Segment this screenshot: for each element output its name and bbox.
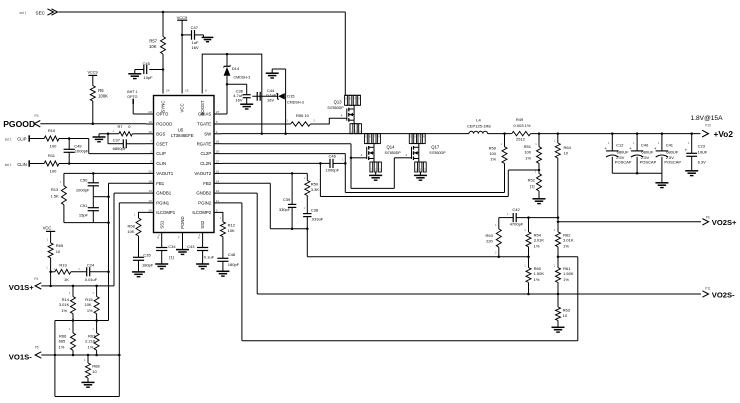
svg-text:C50: C50 bbox=[80, 177, 88, 182]
svg-text:C37: C37 bbox=[113, 138, 121, 143]
svg-text:C35: C35 bbox=[143, 253, 151, 258]
svg-text:OPTO: OPTO bbox=[127, 95, 137, 99]
wire TGATE bbox=[222, 123, 291, 125]
resistor R50 3.3K bbox=[305, 181, 310, 196]
svg-text:C42: C42 bbox=[512, 207, 520, 212]
svg-text:VCC: VCC bbox=[43, 226, 52, 231]
svg-text:FB2: FB2 bbox=[203, 181, 211, 186]
pin 27 GBIAS bbox=[214, 113, 222, 115]
ground for Q17 bbox=[419, 172, 421, 175]
resistor R65 10 bbox=[48, 243, 53, 258]
svg-text:100: 100 bbox=[489, 151, 496, 156]
wire FB2 jog bbox=[222, 182, 271, 184]
svg-text:VCC9: VCC9 bbox=[177, 15, 188, 20]
svg-text:1%: 1% bbox=[87, 308, 93, 313]
pin 14 FB2 bbox=[214, 182, 222, 184]
svg-text:0.1uF: 0.1uF bbox=[204, 254, 215, 259]
wire OPTO net bbox=[132, 104, 134, 114]
wire output cap ground rail bbox=[612, 172, 662, 174]
capacitor C38 .033uF bbox=[303, 213, 311, 215]
svg-text:C23: C23 bbox=[698, 144, 706, 149]
pin 5 SS1 (bottom) bbox=[161, 233, 163, 248]
svg-text:C46: C46 bbox=[329, 153, 337, 158]
svg-text:Q14: Q14 bbox=[387, 144, 396, 149]
svg-text:1000pF: 1000pF bbox=[75, 149, 89, 154]
svg-text:2512: 2512 bbox=[516, 137, 526, 142]
svg-text:LT3846EFE: LT3846EFE bbox=[171, 133, 194, 138]
svg-text:18: 18 bbox=[148, 179, 152, 183]
svg-text:+: + bbox=[654, 146, 657, 151]
pin 2 CLIN bbox=[146, 163, 154, 165]
svg-text:3.01K: 3.01K bbox=[534, 238, 545, 243]
svg-text:10: 10 bbox=[92, 369, 97, 374]
svg-text:16: 16 bbox=[148, 130, 152, 134]
svg-text:+: + bbox=[685, 147, 688, 152]
pin 16 BGS bbox=[146, 133, 154, 135]
svg-text:L4: L4 bbox=[476, 118, 481, 123]
ground for R52 bbox=[533, 198, 546, 200]
ground for C47 bbox=[203, 35, 205, 38]
wire bottom loop bbox=[55, 396, 119, 398]
svg-text:R62: R62 bbox=[563, 232, 571, 237]
svg-text:BOOST: BOOST bbox=[200, 100, 205, 115]
svg-text:BHT 1: BHT 1 bbox=[127, 90, 137, 94]
svg-text:21: 21 bbox=[216, 160, 220, 164]
ground for C35 bbox=[132, 271, 145, 273]
ground for R68 bbox=[82, 381, 95, 383]
svg-text:CLIN: CLIN bbox=[156, 161, 166, 166]
svg-text:1%: 1% bbox=[563, 243, 569, 248]
svg-text:P6: P6 bbox=[706, 216, 710, 220]
svg-text:C47: C47 bbox=[191, 25, 199, 30]
capacitor C50 1000pF bbox=[92, 173, 94, 182]
svg-text:R52: R52 bbox=[528, 177, 536, 182]
capacitor C12 680UF 2.5V POSCAP bbox=[611, 134, 613, 151]
svg-text:VCC9: VCC9 bbox=[88, 70, 98, 74]
svg-text:R49: R49 bbox=[516, 117, 524, 122]
svg-text:R19: R19 bbox=[59, 263, 67, 268]
svg-text:CMDSH-3: CMDSH-3 bbox=[234, 76, 251, 80]
svg-text:22: 22 bbox=[148, 169, 152, 173]
svg-text:1%: 1% bbox=[490, 157, 496, 162]
pin 12 GNDB2 bbox=[214, 192, 222, 194]
pin 20 CL2P bbox=[214, 153, 222, 155]
svg-text:9: 9 bbox=[205, 89, 207, 93]
resistor R52 [1] bbox=[538, 170, 540, 174]
resistor R63 10 bbox=[557, 294, 559, 307]
svg-text:VAOUT1: VAOUT1 bbox=[156, 171, 173, 176]
resistor R14 3.01K 1% bbox=[72, 286, 74, 297]
svg-text:PGOOD: PGOOD bbox=[3, 119, 35, 129]
svg-text:10pF: 10pF bbox=[144, 75, 154, 80]
svg-text:Q17: Q17 bbox=[431, 144, 440, 149]
svg-text:1.5K: 1.5K bbox=[50, 193, 59, 198]
svg-text:D14: D14 bbox=[232, 66, 240, 71]
capacitor C37 6800pF bbox=[107, 134, 109, 144]
svg-text:R67: R67 bbox=[88, 333, 96, 338]
svg-text:10: 10 bbox=[56, 249, 61, 254]
resistor R11 100 bbox=[30, 163, 44, 165]
svg-text:3: 3 bbox=[216, 208, 218, 212]
capacitor C36 4.7uF 16V bbox=[227, 83, 247, 85]
svg-text:24: 24 bbox=[166, 89, 170, 93]
svg-text:C40: C40 bbox=[641, 143, 649, 148]
resistor R59 100 1% bbox=[504, 134, 506, 147]
svg-text:1K: 1K bbox=[64, 277, 69, 282]
svg-text:RGATE: RGATE bbox=[197, 141, 212, 146]
resistor R7 0 bbox=[99, 133, 119, 135]
resistor R15 10K 1% bbox=[96, 286, 98, 297]
capacitor C48 180pF bbox=[217, 257, 228, 259]
svg-text:R66: R66 bbox=[59, 333, 67, 338]
svg-text:SS1: SS1 bbox=[159, 220, 164, 229]
svg-text:5: 5 bbox=[216, 120, 218, 124]
svg-text:VCC: VCC bbox=[180, 103, 185, 112]
svg-text:set 1: set 1 bbox=[5, 137, 12, 141]
svg-text:1: 1 bbox=[150, 150, 152, 154]
svg-text:Si7850DP: Si7850DP bbox=[385, 151, 402, 155]
svg-text:R68: R68 bbox=[92, 363, 100, 368]
svg-text:680UF: 680UF bbox=[666, 149, 679, 154]
svg-text:1000pF: 1000pF bbox=[76, 188, 90, 193]
svg-text:P3: P3 bbox=[35, 114, 39, 118]
wire D15 cathode to SW bbox=[285, 69, 287, 134]
svg-text:VO2S+: VO2S+ bbox=[712, 218, 737, 227]
svg-text:R14: R14 bbox=[62, 297, 70, 302]
svg-text:1.8V@15A: 1.8V@15A bbox=[691, 115, 724, 122]
svg-text:7: 7 bbox=[150, 140, 152, 144]
svg-text:D15: D15 bbox=[287, 94, 295, 99]
ground for C23 bbox=[685, 170, 698, 172]
pin 5 TGATE bbox=[214, 123, 222, 125]
ground for R63 bbox=[552, 326, 565, 328]
ground for output caps bbox=[661, 173, 663, 183]
wire SEC to Q13 drain bbox=[59, 11, 346, 13]
pin 22 VAOUT1 bbox=[146, 172, 154, 174]
resistor R62 3.01K 1% bbox=[557, 218, 559, 232]
pin 7 PGND (bottom) bbox=[182, 233, 184, 250]
capacitor C44 0.1uF 16V with diode D15 CMDSH-3 bbox=[252, 95, 277, 97]
svg-text:C34: C34 bbox=[168, 244, 176, 249]
svg-text:PGND: PGND bbox=[180, 216, 185, 228]
svg-text:R11: R11 bbox=[48, 153, 56, 158]
wire VCC line to IC bbox=[181, 20, 183, 93]
pin 21 CL2N bbox=[214, 163, 222, 165]
svg-text:27: 27 bbox=[216, 110, 220, 114]
pin 6 SS2 (bottom) bbox=[202, 233, 204, 248]
svg-text:1%: 1% bbox=[88, 344, 94, 349]
svg-text:15: 15 bbox=[216, 169, 220, 173]
svg-text:26: 26 bbox=[148, 208, 152, 212]
svg-text:[1]: [1] bbox=[530, 184, 534, 189]
svg-text:GNDB2: GNDB2 bbox=[196, 191, 211, 196]
svg-text:C45: C45 bbox=[143, 61, 151, 66]
svg-text:20: 20 bbox=[216, 150, 220, 154]
svg-text:7: 7 bbox=[178, 236, 180, 240]
svg-text:100: 100 bbox=[50, 168, 57, 173]
wire VAOUT1 bbox=[64, 172, 146, 174]
svg-text:P5: P5 bbox=[35, 345, 39, 349]
svg-text:16V: 16V bbox=[192, 45, 199, 50]
resistor R56 10 bbox=[291, 122, 311, 126]
pin 1 CLIP bbox=[146, 153, 154, 155]
svg-text:R60: R60 bbox=[534, 266, 542, 271]
svg-text:R57: R57 bbox=[149, 38, 157, 43]
ground for Q14 bbox=[375, 172, 377, 175]
svg-text:ILCOMP1: ILCOMP1 bbox=[156, 210, 175, 215]
svg-text:.033uF: .033uF bbox=[311, 217, 324, 222]
capacitor C42 4700pF bbox=[499, 217, 513, 219]
svg-text:19: 19 bbox=[148, 120, 152, 124]
svg-text:R63: R63 bbox=[563, 307, 571, 312]
capacitor C43 0.1uF bbox=[197, 247, 208, 249]
svg-text:PGIN1: PGIN1 bbox=[156, 201, 170, 206]
svg-text:R59: R59 bbox=[489, 145, 497, 150]
svg-text:R53: R53 bbox=[485, 233, 493, 238]
ground for C48 bbox=[216, 270, 229, 272]
svg-text:100: 100 bbox=[524, 150, 531, 155]
resistor R64 10 bbox=[557, 134, 559, 143]
svg-text:11: 11 bbox=[216, 199, 219, 203]
pin 10 PGIN1 bbox=[146, 202, 154, 204]
svg-text:180pF: 180pF bbox=[228, 262, 240, 267]
svg-text:0.003 1%: 0.003 1% bbox=[514, 123, 531, 128]
svg-text:CL2N: CL2N bbox=[200, 161, 211, 166]
svg-text:C41: C41 bbox=[666, 143, 674, 148]
svg-text:1%: 1% bbox=[525, 155, 531, 160]
svg-text:220: 220 bbox=[486, 239, 493, 244]
wire GNDB2 to remote sense- bbox=[222, 192, 258, 194]
svg-text:C43: C43 bbox=[187, 244, 195, 249]
ground for C36 bbox=[240, 103, 253, 105]
svg-text:10: 10 bbox=[563, 313, 568, 318]
svg-text:CSET: CSET bbox=[156, 141, 168, 146]
pin 26 ILCOMP1 bbox=[146, 211, 154, 213]
resistor R51 100 1% bbox=[538, 134, 540, 147]
sense resistor R49 0.003 1% 2512 bbox=[512, 131, 531, 135]
svg-text:Si7850DP: Si7850DP bbox=[327, 106, 344, 110]
svg-text:10: 10 bbox=[564, 151, 569, 156]
svg-text:16V: 16V bbox=[235, 98, 242, 103]
resistor R68 10 bbox=[87, 355, 89, 363]
svg-text:1.50K: 1.50K bbox=[534, 271, 545, 276]
svg-text:CMDSH-3: CMDSH-3 bbox=[287, 101, 304, 105]
wire PGOOD line bbox=[40, 123, 146, 125]
capacitor C34 [1] bbox=[156, 247, 167, 249]
capacitor C51 15pF bbox=[92, 197, 94, 208]
svg-text:FB1: FB1 bbox=[156, 181, 164, 186]
svg-text:680UF: 680UF bbox=[617, 149, 630, 154]
svg-text:SYNC: SYNC bbox=[161, 101, 166, 113]
pin 7 CSET bbox=[146, 143, 154, 145]
svg-text:VO2S-: VO2S- bbox=[712, 291, 735, 300]
svg-text:100K: 100K bbox=[98, 93, 108, 98]
pin 23 OPTO bbox=[146, 113, 154, 115]
svg-text:ILCOMP2: ILCOMP2 bbox=[192, 210, 211, 215]
resistor R67 2.21K 1% bbox=[96, 321, 98, 334]
svg-text:0.01uF: 0.01uF bbox=[85, 277, 98, 282]
svg-text:CEP125-1R8: CEP125-1R8 bbox=[467, 123, 491, 128]
resistor R19 1K (feedforward) bbox=[51, 271, 55, 273]
resistor R66 665 1% bbox=[72, 321, 74, 334]
svg-text:VAOUT2: VAOUT2 bbox=[194, 171, 211, 176]
svg-text:+: + bbox=[629, 146, 632, 151]
ground for R7/C37 bbox=[93, 136, 106, 138]
svg-text:POSCAP: POSCAP bbox=[664, 159, 681, 164]
ground for C45 bbox=[134, 70, 136, 74]
svg-text:10UF: 10UF bbox=[698, 150, 708, 155]
svg-text:Si7850DP: Si7850DP bbox=[429, 151, 446, 155]
svg-text:R58: R58 bbox=[127, 223, 135, 228]
svg-text:3.3K: 3.3K bbox=[311, 187, 320, 192]
svg-text:3.01K: 3.01K bbox=[59, 302, 70, 307]
capacitor C24 0.01uF bbox=[86, 267, 88, 276]
svg-text:CLIN: CLIN bbox=[17, 162, 27, 167]
resistor R53 220 bbox=[498, 218, 500, 229]
svg-text:R56 10: R56 10 bbox=[296, 113, 310, 118]
svg-text:[1]: [1] bbox=[169, 254, 173, 259]
ground for PGND pin bbox=[176, 249, 189, 251]
capacitor C49 1000pF bbox=[68, 139, 70, 150]
svg-text:set 1: set 1 bbox=[20, 11, 27, 15]
svg-text:POSCAP: POSCAP bbox=[615, 159, 632, 164]
pin 3 ILCOMP2 bbox=[214, 211, 222, 213]
resistor R13 1.5K bbox=[61, 186, 66, 205]
capacitor C23 10UF 6.3V bbox=[691, 134, 693, 154]
resistor R61 1.50K 1% bbox=[557, 257, 559, 268]
svg-text:180pF: 180pF bbox=[142, 262, 154, 267]
wire VOUT rail bbox=[488, 133, 512, 135]
wire R65 junction down to VO1S+ line bbox=[50, 272, 52, 286]
svg-text:3.01K: 3.01K bbox=[563, 238, 574, 243]
svg-text:SW: SW bbox=[204, 131, 212, 136]
resistor R12 10K bbox=[220, 222, 225, 237]
svg-text:R10: R10 bbox=[48, 128, 56, 133]
svg-text:15: 15 bbox=[185, 89, 189, 93]
resistor R58 10K bbox=[136, 218, 141, 236]
wire FB2 tap line to divider bbox=[307, 256, 528, 258]
svg-text:P11: P11 bbox=[705, 286, 711, 290]
svg-text:TGATE: TGATE bbox=[197, 122, 211, 127]
resistor R10 100 bbox=[30, 138, 44, 140]
svg-text:R50: R50 bbox=[311, 181, 319, 186]
svg-text:14: 14 bbox=[216, 179, 220, 183]
capacitor C46 1000pF bbox=[329, 159, 331, 168]
svg-text:2: 2 bbox=[150, 160, 152, 164]
wire VAOUT2 bbox=[222, 172, 308, 174]
svg-text:R7: R7 bbox=[118, 124, 124, 129]
svg-text:C24: C24 bbox=[87, 263, 95, 268]
wire FB1 divider tap bbox=[55, 320, 109, 322]
wire PGIN1 sense bbox=[119, 202, 146, 204]
pin 13 GNDB1 bbox=[146, 192, 154, 194]
pin 19 PGOOD bbox=[146, 123, 154, 125]
svg-text:15pF: 15pF bbox=[79, 212, 89, 217]
svg-text:R64: R64 bbox=[564, 145, 572, 150]
svg-text:12: 12 bbox=[216, 189, 220, 193]
capacitor C41 680UF 2.5V POSCAP bbox=[661, 134, 663, 151]
svg-text:10K: 10K bbox=[127, 229, 134, 234]
svg-text:C51: C51 bbox=[80, 203, 88, 208]
resistor R54 3.01K 1% bbox=[528, 218, 530, 232]
svg-text:10: 10 bbox=[148, 199, 152, 203]
ground for C43 bbox=[196, 263, 209, 265]
svg-text:R15: R15 bbox=[85, 297, 93, 302]
wire R10 to CLIP pin bbox=[88, 139, 90, 154]
svg-text:VO1S-: VO1S- bbox=[9, 352, 33, 361]
svg-text:1%: 1% bbox=[61, 308, 67, 313]
svg-text:1.50K: 1.50K bbox=[563, 271, 574, 276]
ground above D15 bbox=[271, 69, 273, 73]
svg-text:PGOOD: PGOOD bbox=[156, 122, 172, 127]
svg-text:P10: P10 bbox=[705, 124, 711, 128]
pin 15 VAOUT2 bbox=[214, 172, 222, 174]
svg-text:4: 4 bbox=[216, 130, 218, 134]
svg-text:CLIP: CLIP bbox=[156, 151, 166, 156]
wire remote sense- rail bbox=[257, 293, 701, 295]
svg-text:P4: P4 bbox=[34, 277, 38, 281]
svg-text:R13: R13 bbox=[51, 187, 59, 192]
connector P6 VO2S+ bbox=[557, 221, 560, 224]
svg-text:6.3V: 6.3V bbox=[698, 159, 707, 164]
svg-text:10K: 10K bbox=[84, 302, 91, 307]
svg-text:GNDB1: GNDB1 bbox=[156, 191, 171, 196]
wire GBIAS riser bbox=[222, 113, 228, 115]
pin 26 RGATE bbox=[214, 143, 222, 145]
resistor R5 100K bbox=[90, 86, 95, 101]
svg-text:1%: 1% bbox=[534, 277, 540, 282]
svg-text:13: 13 bbox=[148, 189, 152, 193]
svg-text:POSCAP: POSCAP bbox=[640, 159, 657, 164]
pin 11 PGIN2 bbox=[214, 202, 222, 204]
svg-text:PGIN2: PGIN2 bbox=[198, 201, 212, 206]
svg-text:R65: R65 bbox=[56, 243, 64, 248]
svg-text:C12: C12 bbox=[616, 143, 624, 148]
wire FB1 vertical bbox=[109, 182, 147, 184]
wire BOOST loop bbox=[202, 54, 262, 134]
pin 18 FB1 bbox=[146, 182, 154, 184]
svg-text:CL2P: CL2P bbox=[200, 151, 211, 156]
svg-text:1%: 1% bbox=[563, 277, 569, 282]
svg-text:1000pF: 1000pF bbox=[326, 168, 340, 173]
svg-text:R54: R54 bbox=[534, 232, 542, 237]
svg-text:SEC: SEC bbox=[36, 10, 46, 15]
svg-text:+Vo2: +Vo2 bbox=[714, 129, 734, 139]
capacitor C40 680UF 2.5V POSCAP bbox=[636, 134, 638, 151]
svg-text:R61: R61 bbox=[563, 266, 571, 271]
pin 4 SW bbox=[214, 133, 222, 135]
svg-text:1%: 1% bbox=[59, 344, 65, 349]
svg-text:6800pF: 6800pF bbox=[113, 146, 127, 151]
capacitor C35 180pF bbox=[133, 256, 144, 258]
svg-text:1%: 1% bbox=[534, 243, 540, 248]
svg-text:23: 23 bbox=[148, 110, 152, 114]
resistor R57 10K on SYNC line bbox=[162, 12, 164, 37]
svg-text:4700pF: 4700pF bbox=[510, 222, 524, 227]
capacitor C45 10pF bbox=[149, 69, 163, 71]
svg-text:SS2: SS2 bbox=[200, 220, 205, 229]
svg-text:U5: U5 bbox=[178, 128, 184, 133]
svg-text:C39: C39 bbox=[283, 197, 291, 202]
svg-text:C38: C38 bbox=[311, 208, 319, 213]
svg-text:100: 100 bbox=[50, 143, 57, 148]
svg-text:680UF: 680UF bbox=[641, 149, 654, 154]
svg-text:BGS: BGS bbox=[156, 131, 165, 136]
svg-text:set 1: set 1 bbox=[5, 163, 12, 167]
wire PGIN2 to divider bbox=[222, 202, 242, 204]
svg-text:+: + bbox=[604, 146, 607, 151]
svg-text:R51: R51 bbox=[524, 144, 532, 149]
